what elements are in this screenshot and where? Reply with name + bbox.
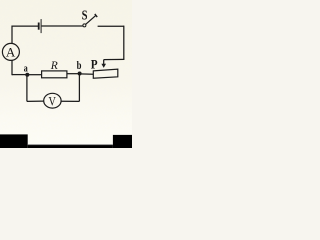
switch S blade tip tick (95, 14, 97, 17)
wire top left (corner to battery) (12, 25, 38, 27)
wire switch to top-right corner (98, 25, 124, 27)
svg-text:a: a (24, 63, 28, 74)
voltmeter branch: wire voltmeter right (61, 100, 79, 102)
ammeter A body (2, 43, 19, 60)
svg-text:A: A (6, 44, 16, 59)
wire to rheostat wiper (104, 58, 125, 60)
switch S pivot contact (83, 24, 86, 27)
svg-text:P: P (91, 58, 98, 72)
node b junction dot (78, 72, 82, 76)
rheostat P body (93, 69, 118, 78)
svg-text:R: R (50, 60, 58, 72)
wire node a to resistor (27, 74, 41, 76)
wire left vertical lower (ammeter to corner) (11, 60, 13, 75)
voltmeter branch: wire up to node b (78, 74, 80, 102)
wire battery to switch (42, 25, 83, 27)
svg-text:V: V (49, 96, 56, 109)
battery cell: long positive plate (40, 19, 42, 33)
voltmeter V body (44, 93, 61, 108)
wire resistor to node b (67, 73, 80, 75)
wire node b to rheostat (80, 73, 94, 75)
node a junction dot (25, 73, 29, 77)
wire ammeter corner to node a (12, 74, 27, 76)
svg-text:b: b (77, 60, 82, 72)
wire left vertical upper (corner to ammeter) (11, 26, 13, 44)
battery cell: short negative plate (38, 23, 40, 30)
rheostat P wiper arrowhead (101, 64, 106, 68)
voltmeter branch: wire node a down (26, 75, 28, 102)
wire right vertical (123, 26, 125, 60)
rheostat P wiper stem (103, 60, 105, 65)
resistor R body (42, 71, 67, 78)
switch S blade (86, 15, 96, 24)
svg-text:S: S (82, 7, 88, 23)
voltmeter branch: wire to voltmeter left (27, 100, 44, 102)
